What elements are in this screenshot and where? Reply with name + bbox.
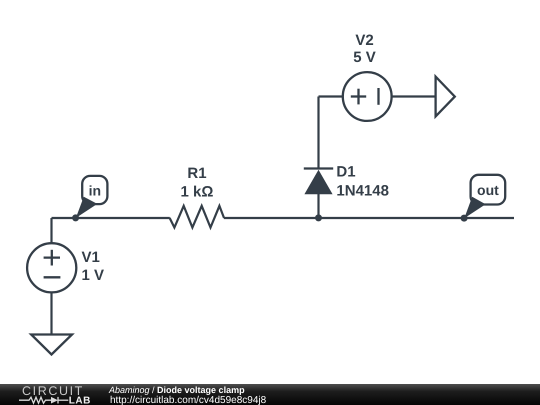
wire V2 right — [392, 95, 436, 97]
label V2 value 5 V — [353, 32, 376, 66]
wire main horizontal net in, left of R1 — [52, 217, 170, 219]
svg-text:out: out — [477, 182, 499, 198]
footer credit line — [108, 385, 245, 395]
svg-text:V2: V2 — [355, 32, 373, 49]
label D1 value 1N4148 — [336, 164, 389, 200]
wire V1 bottom vertical — [50, 292, 52, 334]
resistor R1 — [170, 206, 224, 228]
voltage source V2 — [343, 72, 392, 121]
svg-text:5 V: 5 V — [353, 49, 376, 66]
svg-text:V1: V1 — [82, 249, 100, 266]
svg-text:1N4148: 1N4148 — [336, 183, 389, 200]
svg-text:1 V: 1 V — [82, 267, 105, 284]
svg-text:LAB: LAB — [69, 396, 91, 405]
wire V1 top vertical — [50, 218, 52, 244]
label V1 value 1 V — [82, 249, 105, 284]
svg-text:in: in — [89, 183, 101, 199]
svg-text:Abaminog / Diode voltage clamp: Abaminog / Diode voltage clamp — [108, 385, 245, 395]
svg-text:1 kΩ: 1 kΩ — [181, 184, 214, 201]
voltage source V1 — [27, 243, 76, 292]
node in flag — [76, 176, 108, 218]
wire V2 left — [319, 95, 344, 97]
svg-text:R1: R1 — [187, 165, 206, 182]
node dot junction in — [72, 214, 79, 221]
footer bar — [0, 384, 540, 405]
svg-text:http://circuitlab.com/cv4d59e8: http://circuitlab.com/cv4d59e8c94j8 — [110, 395, 267, 405]
ground — [31, 335, 72, 355]
diode D1 — [304, 97, 333, 219]
footer url line — [110, 395, 267, 405]
svg-text:D1: D1 — [336, 164, 355, 181]
wire main horizontal net out, right of R1 — [224, 217, 514, 219]
output port triangle — [436, 77, 455, 117]
node out flag — [464, 175, 505, 218]
node dot junction D1 — [315, 214, 322, 221]
label R1 value 1 kOhm — [181, 165, 214, 201]
node dot junction out — [461, 215, 468, 222]
circuitlab logo — [19, 384, 91, 405]
